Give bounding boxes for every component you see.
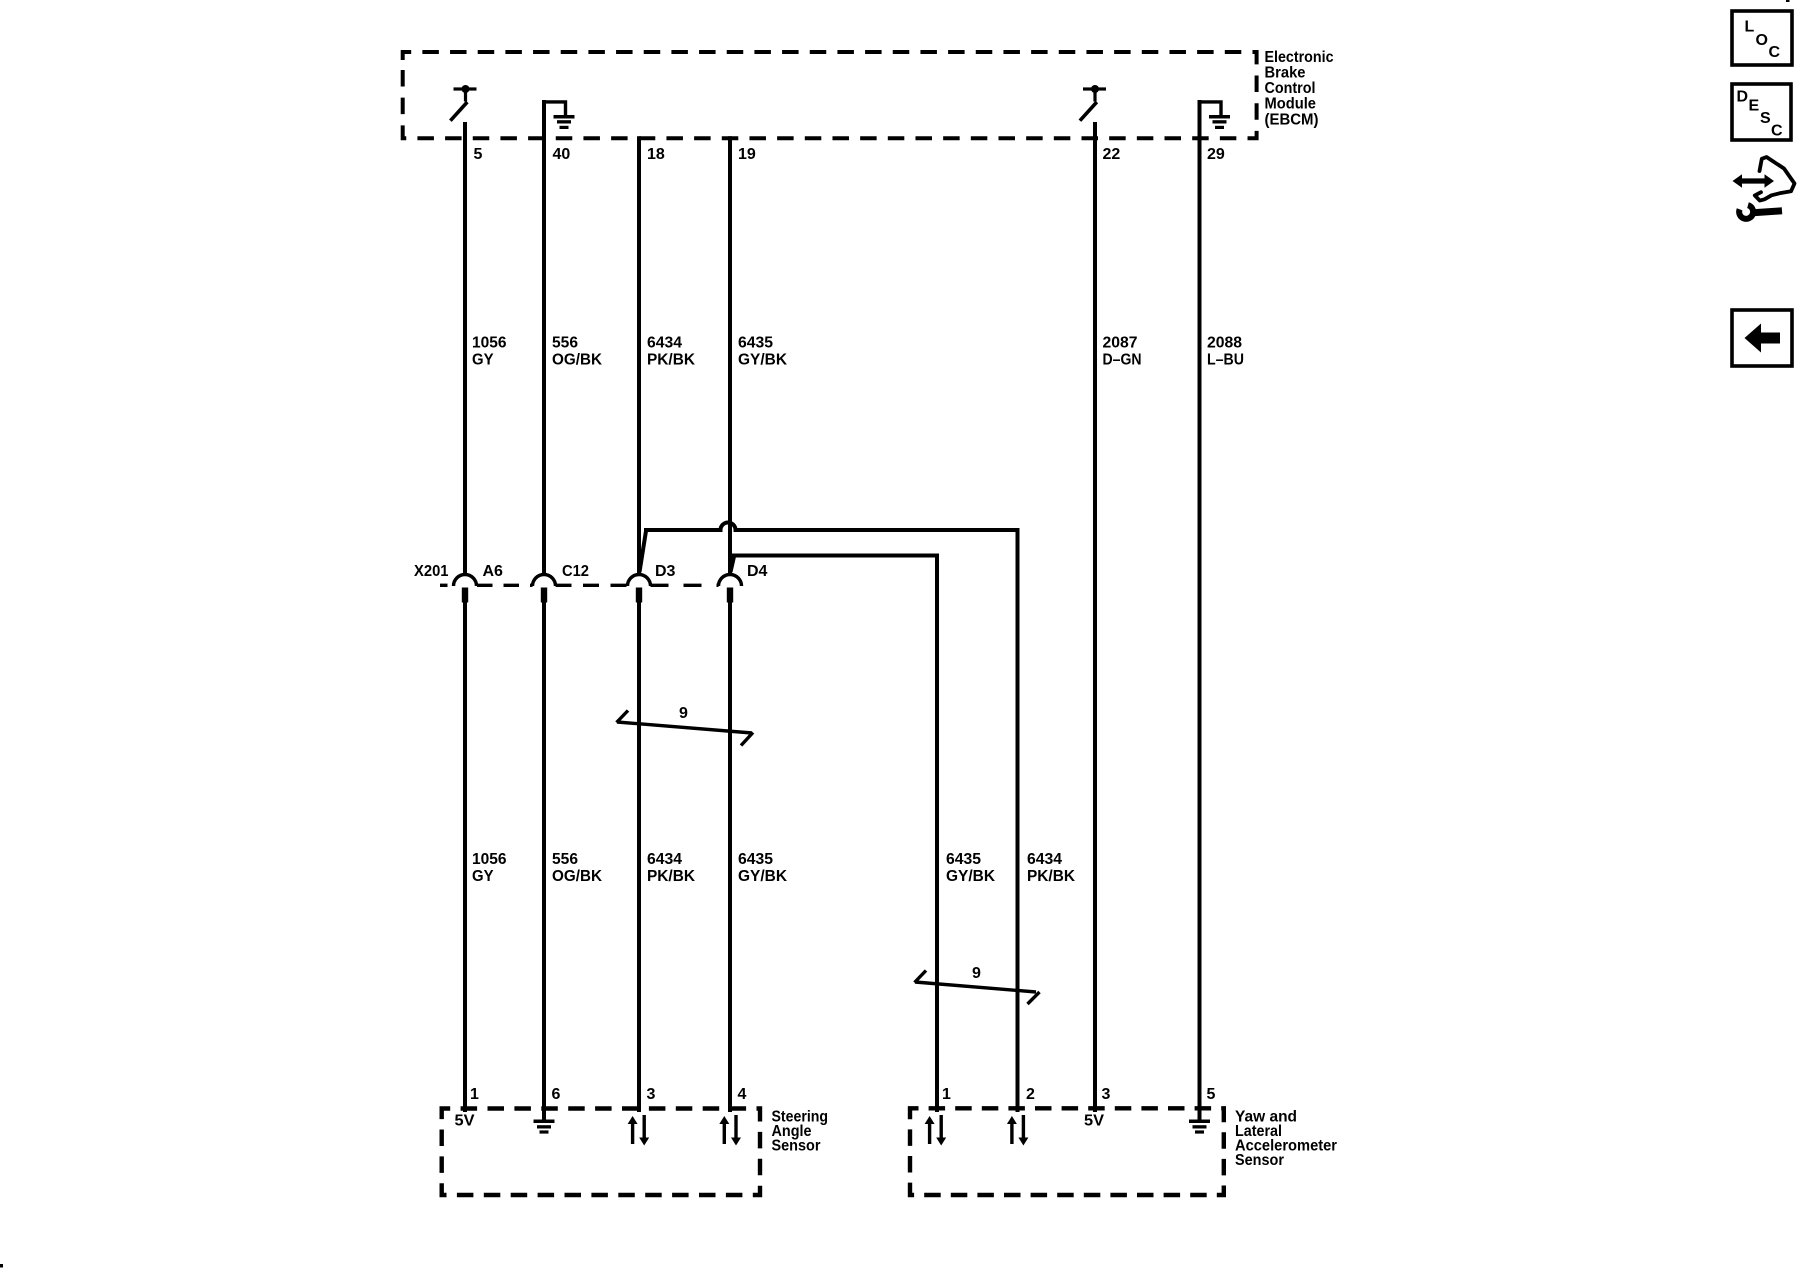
svg-text:GY/BK: GY/BK [738, 352, 787, 369]
svg-text:3: 3 [1102, 1086, 1111, 1103]
connector pin C12 [533, 575, 556, 603]
svg-text:6435: 6435 [946, 851, 981, 868]
svg-text:5: 5 [1207, 1086, 1216, 1103]
svg-text:18: 18 [647, 146, 665, 163]
page corner mark top right [1786, 0, 1790, 2]
Yaw and Lateral Accelerometer Sensor box [910, 1108, 1224, 1195]
EBCM label [1265, 49, 1334, 129]
svg-text:2088: 2088 [1207, 335, 1242, 352]
svg-text:C12: C12 [562, 563, 589, 580]
svg-text:PK/BK: PK/BK [1027, 868, 1075, 885]
wire segment A6 to SAS pin 1 [463, 602, 467, 1112]
wire 6434 PK/BK branch (X201 D3 to yaw sensor pin 2, hops over D4 wire) [640, 523, 1018, 1112]
lower wire label 6434 PK/BK [647, 851, 695, 885]
wire label 2088 L-BU [1207, 335, 1244, 369]
view/repair icon (double arrow, outline, wrench) [1733, 157, 1795, 219]
connector pin A6 [454, 575, 477, 603]
twisted pair marker 9 (steering sensor signal pair) [617, 711, 754, 746]
svg-text:5V: 5V [1084, 1113, 1104, 1130]
svg-text:19: 19 [738, 146, 756, 163]
Steering Angle Sensor label [772, 1109, 829, 1155]
ground symbol yaw pin 5 [1189, 1120, 1210, 1134]
svg-text:Sensor: Sensor [1235, 1152, 1284, 1169]
svg-text:PK/BK: PK/BK [647, 352, 695, 369]
svg-text:O: O [1756, 32, 1768, 49]
lower wire label 556 OG/BK [552, 851, 602, 885]
svg-text:OG/BK: OG/BK [552, 352, 602, 369]
page corner mark bottom left [0, 1264, 3, 1268]
svg-text:GY/BK: GY/BK [946, 868, 995, 885]
wire 556 OG/BK (EBCM pin 40 to X201 C12) [542, 100, 546, 575]
svg-text:5: 5 [474, 146, 483, 163]
svg-text:Sensor: Sensor [772, 1138, 821, 1155]
signal arrows yaw pin 2 [1007, 1115, 1029, 1146]
signal arrows SAS pin 3 [628, 1115, 650, 1146]
svg-text:X201: X201 [414, 563, 449, 580]
svg-text:4: 4 [738, 1086, 747, 1103]
wire label 6435 GY/BK upper [738, 335, 787, 369]
ground symbol EBCM pin 29 [1200, 102, 1231, 129]
svg-text:S: S [1760, 110, 1771, 127]
wire 2088 L-BU (EBCM pin 29 to yaw sensor pin 5) [1198, 100, 1202, 1120]
svg-text:D–GN: D–GN [1103, 352, 1142, 369]
Steering Angle Sensor box [442, 1109, 760, 1196]
svg-text:1: 1 [942, 1086, 951, 1103]
wire label 2087 D-GN [1103, 335, 1142, 369]
svg-text:2: 2 [1026, 1086, 1035, 1103]
lower wire label 6434 PK/BK (yaw pin 2) [1027, 851, 1075, 885]
svg-text:9: 9 [679, 705, 688, 722]
svg-text:22: 22 [1103, 146, 1121, 163]
svg-text:D4: D4 [747, 563, 768, 580]
svg-text:C: C [1771, 123, 1783, 140]
back arrow icon [1732, 310, 1792, 366]
wire segment D3 to SAS pin 3 [637, 602, 641, 1112]
svg-text:L–BU: L–BU [1207, 352, 1244, 369]
svg-text:A6: A6 [483, 563, 504, 580]
svg-text:556: 556 [552, 851, 578, 868]
twisted pair marker 9 (yaw sensor signal pair) [915, 971, 1040, 1005]
signal arrows SAS pin 4 [719, 1115, 741, 1146]
svg-text:GY/BK: GY/BK [738, 868, 787, 885]
wire 6435 GY/BK branch (X201 D4 to yaw sensor pin 1) [731, 556, 938, 1113]
ground symbol SAS pin 6 [534, 1120, 555, 1134]
svg-text:2087: 2087 [1103, 335, 1138, 352]
svg-text:29: 29 [1207, 146, 1225, 163]
svg-text:D: D [1737, 89, 1749, 106]
lower wire label 6435 GY/BK (yaw pin 1) [946, 851, 995, 885]
svg-text:1056: 1056 [472, 335, 507, 352]
svg-text:Electronic: Electronic [1265, 49, 1334, 66]
EBCM module box [403, 52, 1257, 138]
svg-text:OG/BK: OG/BK [552, 868, 602, 885]
svg-text:6435: 6435 [738, 851, 773, 868]
svg-text:Control: Control [1265, 80, 1316, 97]
wire 1056 GY (EBCM pin 5 to X201 A6) [463, 122, 467, 575]
switch symbol EBCM pin 22 [1080, 85, 1106, 121]
wire 6434 PK/BK (EBCM pin 18 to X201 D3) [637, 136, 641, 575]
svg-text:6434: 6434 [1027, 851, 1062, 868]
DESC icon [1732, 84, 1791, 140]
wire segment C12 to SAS pin 6 (ground) [542, 602, 546, 1120]
svg-text:Brake: Brake [1265, 65, 1306, 82]
Yaw and Lateral Accelerometer Sensor label [1235, 1109, 1337, 1170]
svg-text:3: 3 [647, 1086, 656, 1103]
ground symbol EBCM pin 40 [544, 102, 575, 129]
wire label 556 OG/BK upper [552, 335, 602, 369]
svg-text:L: L [1745, 19, 1755, 36]
svg-text:(EBCM): (EBCM) [1265, 112, 1319, 129]
svg-text:1056: 1056 [472, 851, 507, 868]
lower wire label 6435 GY/BK [738, 851, 787, 885]
connector pin D4 [719, 575, 742, 603]
wire label 6434 PK/BK upper [647, 335, 695, 369]
switch symbol EBCM pin 5 [450, 85, 476, 121]
lower wire label 1056 GY [472, 851, 507, 885]
svg-text:9: 9 [972, 965, 981, 982]
svg-text:PK/BK: PK/BK [647, 868, 695, 885]
wire label 1056 GY upper [472, 335, 507, 369]
svg-text:C: C [1769, 44, 1781, 61]
signal arrows yaw pin 1 [925, 1115, 947, 1146]
svg-text:GY: GY [472, 352, 494, 369]
svg-text:556: 556 [552, 335, 578, 352]
wire 6435 GY/BK (EBCM pin 19 to X201 D4) [728, 136, 732, 573]
svg-text:6434: 6434 [647, 335, 682, 352]
svg-text:D3: D3 [655, 563, 676, 580]
svg-text:E: E [1749, 98, 1760, 115]
svg-text:GY: GY [472, 868, 494, 885]
connector X201 dashed line [440, 584, 719, 587]
wire 2087 D-GN (EBCM pin 22 to yaw sensor pin 3) [1093, 122, 1097, 1112]
svg-text:1: 1 [470, 1086, 479, 1103]
svg-text:5V: 5V [455, 1113, 475, 1130]
svg-text:6: 6 [552, 1086, 561, 1103]
svg-text:40: 40 [553, 146, 571, 163]
svg-text:6435: 6435 [738, 335, 773, 352]
LOC icon [1732, 11, 1792, 65]
svg-text:Module: Module [1265, 96, 1317, 113]
wire segment D4 to SAS pin 4 [728, 602, 732, 1112]
svg-text:6434: 6434 [647, 851, 682, 868]
connector pin D3 [628, 575, 651, 603]
